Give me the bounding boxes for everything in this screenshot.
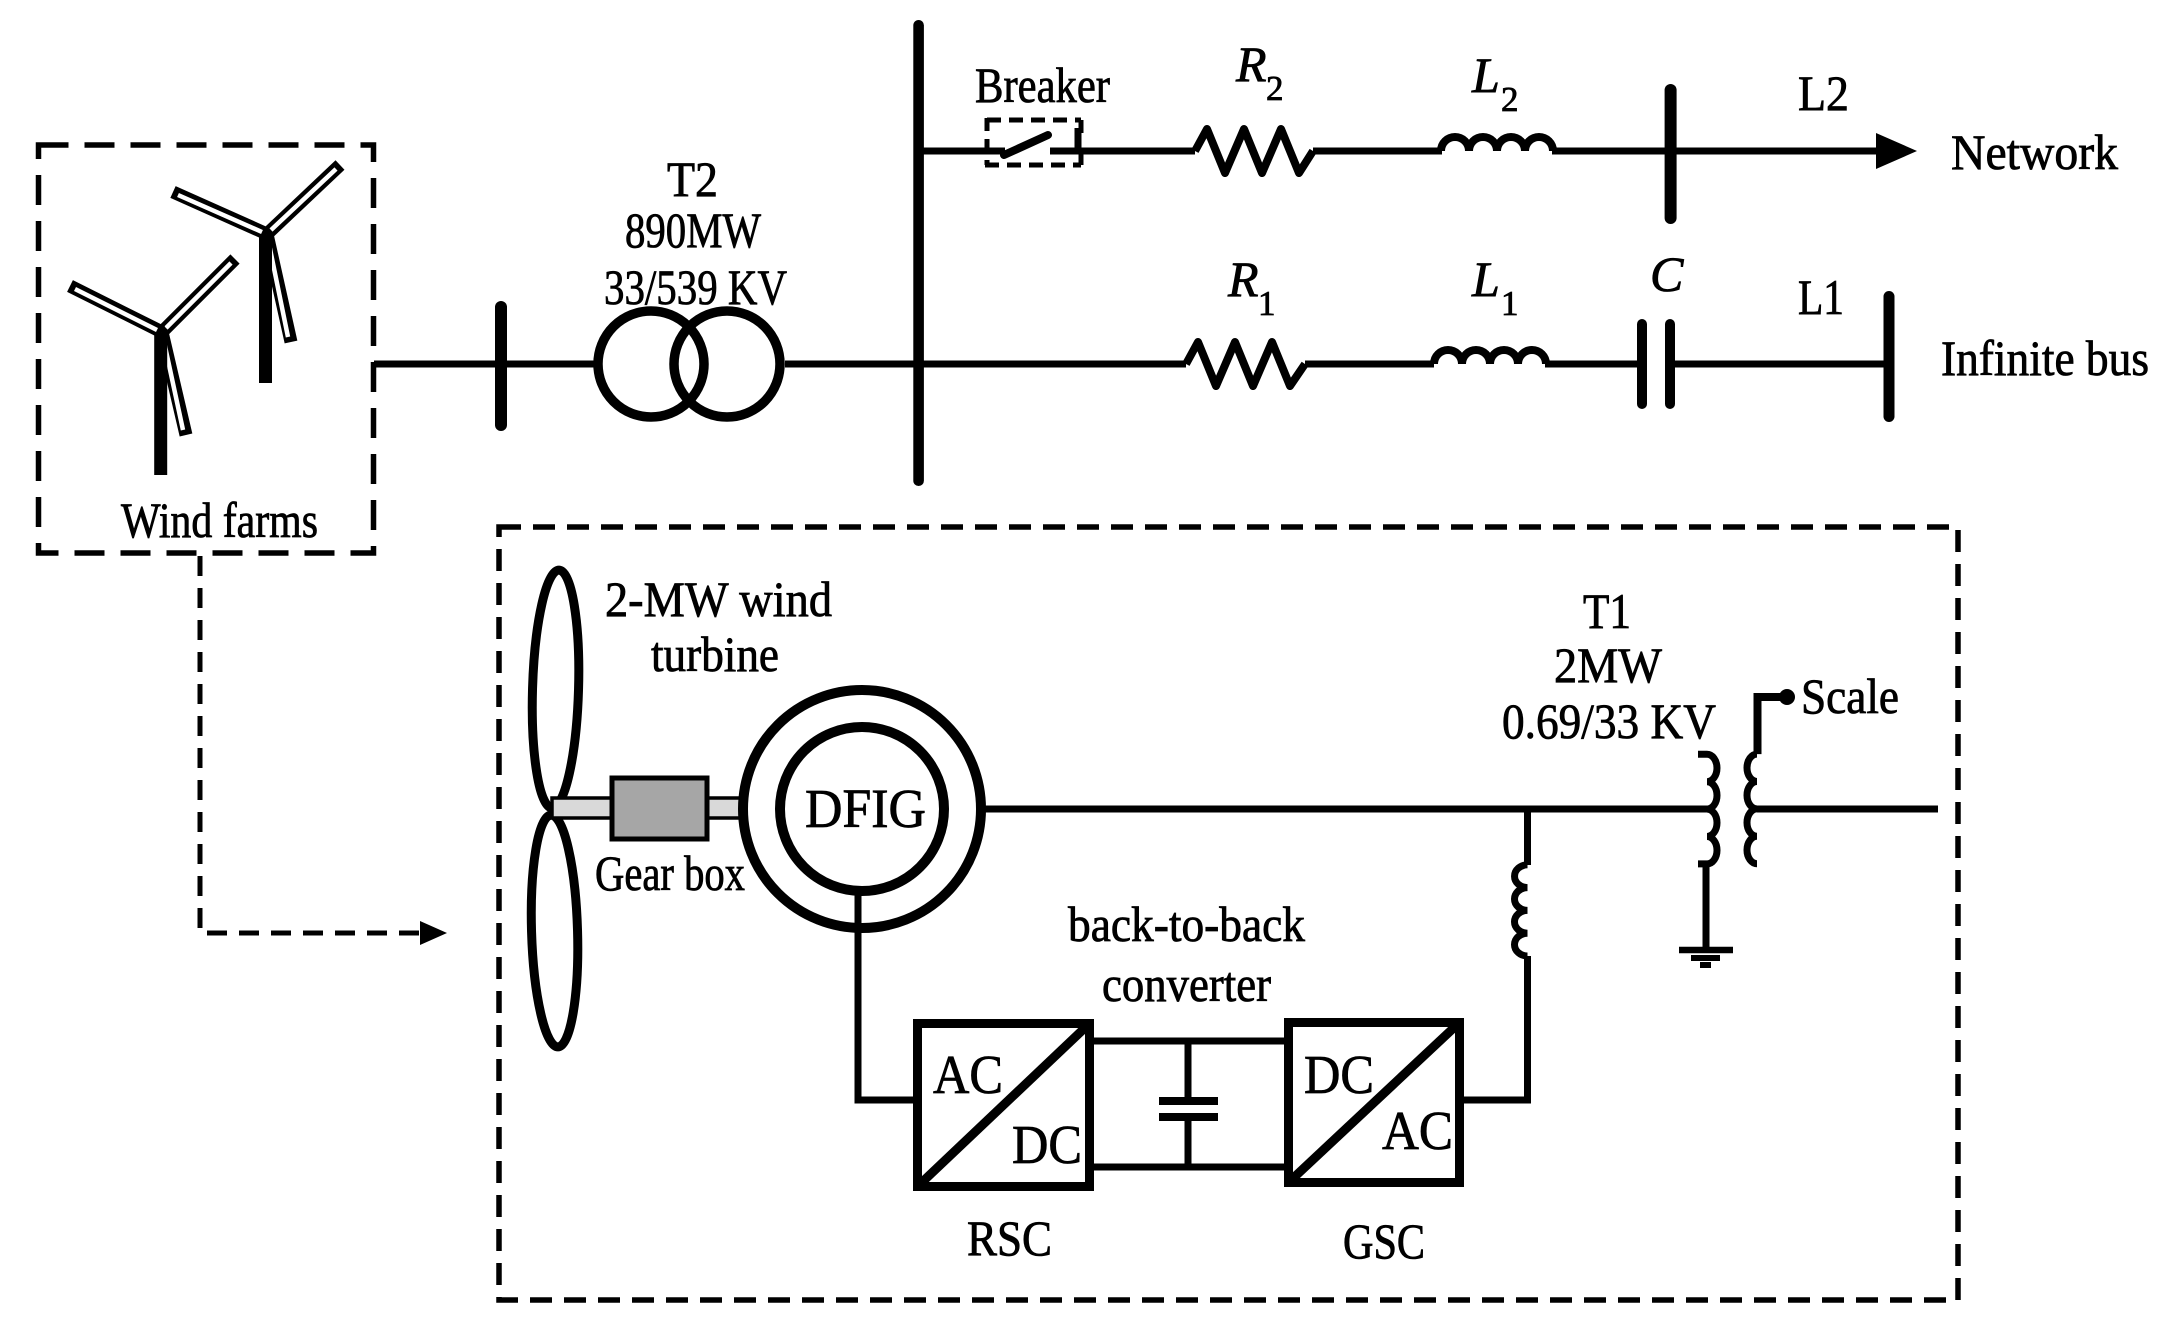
scale probe dot: [1779, 689, 1795, 705]
wind turbine symbol 1 (upper right): [173, 165, 340, 383]
wind farms dashed box: [39, 145, 374, 553]
svg-text:GSC: GSC: [1343, 1213, 1425, 1269]
main bus bar: [913, 20, 924, 486]
svg-text:converter: converter: [1102, 956, 1271, 1012]
shaft: [552, 798, 772, 818]
GSC diagonal: [1288, 1022, 1460, 1183]
svg-text:R: R: [1227, 251, 1259, 307]
T1 primary ground wire: [1703, 864, 1710, 948]
gear box: [612, 778, 707, 839]
svg-text:Infinite bus: Infinite bus: [1941, 330, 2149, 386]
svg-text:2MW: 2MW: [1554, 637, 1663, 693]
svg-text:turbine: turbine: [651, 626, 779, 682]
wire GSC to riser: [1464, 956, 1528, 1100]
breaker lever: [1004, 135, 1048, 155]
resistor R2: [1195, 129, 1313, 173]
svg-text:DC: DC: [1012, 1114, 1082, 1175]
svg-text:RSC: RSC: [967, 1210, 1052, 1266]
svg-text:Gear box: Gear box: [595, 845, 745, 901]
wire L1 to C: [1545, 361, 1638, 368]
T1 secondary winding: [1747, 754, 1757, 864]
DFIG inner circle: [780, 727, 944, 891]
terminal bar L2: [1665, 84, 1677, 224]
dc link bottom wire: [1094, 1164, 1284, 1171]
big dashed box: [499, 527, 1958, 1300]
riser wire to main line: [1524, 809, 1531, 865]
svg-text:2: 2: [1266, 69, 1284, 108]
wire DFIG to RSC: [858, 888, 915, 1100]
dc link top wire: [1094, 1038, 1284, 1045]
inductor L1: [1434, 350, 1546, 364]
svg-text:L1: L1: [1798, 269, 1844, 325]
arrowhead to network: [1876, 133, 1917, 169]
svg-text:2: 2: [1501, 80, 1519, 119]
wire R1 to L1: [1305, 361, 1434, 368]
svg-text:R: R: [1235, 36, 1267, 92]
bottom branch wire bus to R1: [918, 361, 1186, 368]
DFIG outer circle: [743, 690, 981, 928]
GSC converter box: [1289, 1023, 1460, 1183]
resistor R1: [1186, 342, 1305, 386]
inductor L2: [1441, 137, 1553, 151]
dashed connector from wind farms: [200, 556, 420, 933]
svg-text:2-MW wind: 2-MW wind: [605, 571, 832, 627]
turbine blade lower: [528, 814, 581, 1047]
wire C to infinite bus: [1675, 361, 1889, 368]
connector arrowhead: [420, 921, 447, 945]
wire breaker to R2: [1050, 148, 1195, 155]
breaker dashed box: [987, 118, 1081, 123]
wire R2 to L2: [1313, 148, 1442, 155]
bus tick: [495, 301, 507, 431]
svg-text:AC: AC: [933, 1044, 1003, 1105]
svg-text:0.69/33 KV: 0.69/33 KV: [1502, 693, 1716, 749]
svg-text:Network: Network: [1951, 124, 2118, 180]
svg-text:L2: L2: [1798, 65, 1849, 121]
svg-text:890MW: 890MW: [625, 202, 762, 258]
scale probe wire: [1758, 697, 1785, 754]
top branch wire from bus to breaker: [918, 148, 1005, 155]
svg-text:L: L: [1471, 47, 1500, 103]
riser inductor: [1515, 865, 1528, 956]
svg-text:T1: T1: [1583, 583, 1631, 639]
RSC converter box: [918, 1024, 1090, 1187]
wind turbine symbol 2 (lower left): [70, 259, 235, 475]
breaker contact tick: [1075, 128, 1082, 151]
capacitor C: [1637, 319, 1647, 409]
turbine blade upper: [529, 569, 582, 808]
svg-text:DC: DC: [1304, 1044, 1374, 1105]
wire L2 to arrow: [1552, 148, 1880, 155]
svg-text:T2: T2: [667, 151, 718, 207]
svg-text:AC: AC: [1382, 1100, 1453, 1161]
transformer T2: [598, 311, 704, 417]
wire T2 to main bus: [785, 361, 918, 368]
main lower wire DFIG to T1: [981, 806, 1710, 813]
svg-text:L: L: [1471, 251, 1500, 307]
RSC diagonal: [917, 1023, 1090, 1187]
svg-text:1: 1: [1258, 284, 1276, 323]
infinite bus bar: [1884, 291, 1895, 422]
svg-text:C: C: [1650, 246, 1684, 302]
svg-text:Wind farms: Wind farms: [121, 492, 318, 548]
svg-text:1: 1: [1501, 284, 1519, 323]
wire from wind farms box to T2: [374, 361, 599, 368]
svg-text:DFIG: DFIG: [805, 778, 926, 839]
dc link capacitor: [1185, 1041, 1192, 1098]
svg-text:Scale: Scale: [1801, 668, 1899, 724]
ground: [1679, 947, 1733, 954]
main lower wire T1 to right end: [1757, 806, 1938, 813]
svg-text:Breaker: Breaker: [975, 57, 1110, 113]
T1 primary winding: [1698, 754, 1717, 864]
svg-text:33/539 KV: 33/539 KV: [604, 259, 787, 315]
svg-text:back-to-back: back-to-back: [1068, 896, 1305, 952]
